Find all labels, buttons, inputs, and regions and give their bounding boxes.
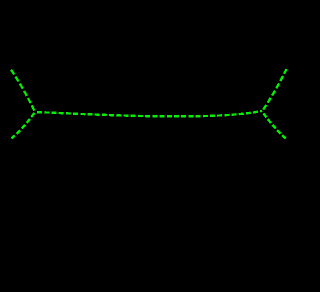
bond lower-left	[11, 112, 35, 138]
bond central horizontal	[35, 111, 262, 116]
bond upper-left	[11, 70, 35, 112]
bond lower-right	[262, 112, 287, 140]
bond upper-right	[262, 69, 287, 111]
